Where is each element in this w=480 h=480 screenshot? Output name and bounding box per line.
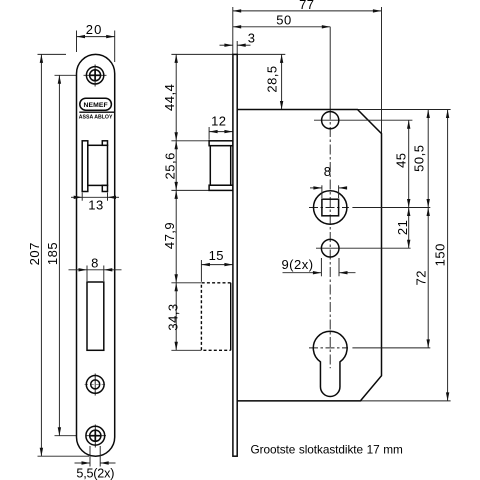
dimension 44,4 xyxy=(162,54,177,140)
dimension 21 xyxy=(395,208,410,249)
dimension 185 extension lines xyxy=(55,75,87,435)
svg-text:50,5: 50,5 xyxy=(411,145,426,172)
dimension 77 xyxy=(233,0,382,134)
dimension 3 xyxy=(220,30,256,54)
dimension 150 xyxy=(433,110,448,401)
svg-text:3: 3 xyxy=(248,30,256,45)
bottom screw hole xyxy=(86,425,106,448)
lock case outline xyxy=(237,110,381,401)
dimension 8 (faceplate slot) xyxy=(69,256,122,281)
dimension 45 xyxy=(394,120,409,207)
dimension 13 xyxy=(71,193,119,213)
dimension 25,6 xyxy=(163,141,210,191)
svg-text:44,4: 44,4 xyxy=(162,84,177,111)
case bottom edge + extension xyxy=(237,400,450,402)
svg-text:21: 21 xyxy=(395,220,410,235)
dimension 28,5 xyxy=(265,54,282,109)
svg-text:185: 185 xyxy=(45,242,60,265)
euro cylinder hole xyxy=(309,331,430,396)
dimension 8 (spindle square) xyxy=(310,164,347,198)
dimension 9(2x) xyxy=(281,257,355,276)
dimension 15 xyxy=(201,248,233,282)
svg-text:72: 72 xyxy=(413,270,428,285)
svg-text:45: 45 xyxy=(394,152,409,167)
extension line faceplate top (44,4 / 28,5) xyxy=(171,53,285,55)
svg-text:77: 77 xyxy=(299,0,314,12)
dimension 50 xyxy=(233,12,331,27)
faceplate edge view strip xyxy=(233,54,237,456)
dimension 207 xyxy=(27,54,42,456)
svg-text:50: 50 xyxy=(276,12,291,27)
deadbolt side view (dashed) xyxy=(201,283,230,351)
dimension 5,5(2x) xyxy=(75,446,116,480)
NEMEF logo xyxy=(79,98,114,120)
svg-text:12: 12 xyxy=(211,113,226,128)
svg-text:9(2x): 9(2x) xyxy=(281,257,313,272)
svg-text:207: 207 xyxy=(27,242,42,265)
dimension 47,9 xyxy=(162,190,177,282)
svg-text:8: 8 xyxy=(91,256,99,271)
svg-text:47,9: 47,9 xyxy=(162,222,177,249)
svg-text:25,6: 25,6 xyxy=(163,152,178,179)
svg-text:5,5(2x): 5,5(2x) xyxy=(76,467,114,480)
svg-text:15: 15 xyxy=(209,248,224,263)
svg-text:20: 20 xyxy=(86,22,103,37)
top screw hole xyxy=(84,65,107,87)
dimension 72 xyxy=(413,208,428,348)
spindle hole with square xyxy=(309,191,430,224)
dimension 20 xyxy=(77,22,115,62)
dimension 12 xyxy=(209,113,233,140)
dimension 34,3 xyxy=(166,283,202,351)
dimension 185 xyxy=(45,75,60,435)
top case hole 9mm xyxy=(314,112,412,129)
latch opening on faceplate xyxy=(82,141,107,192)
faceplate front view xyxy=(77,54,115,456)
dimension 207 extension lines xyxy=(38,54,90,456)
lower case hole 9mm xyxy=(316,239,411,257)
deadbolt slot on faceplate xyxy=(87,282,104,350)
svg-text:ASSA ABLOY: ASSA ABLOY xyxy=(79,114,113,120)
svg-text:NEMEF: NEMEF xyxy=(83,102,107,109)
middle screw hole xyxy=(85,374,107,396)
latch bolt side view xyxy=(209,141,233,191)
svg-text:150: 150 xyxy=(433,243,448,266)
dimension 50,5 xyxy=(411,110,428,208)
case top edge + extension xyxy=(237,109,450,111)
svg-text:13: 13 xyxy=(88,198,103,213)
svg-text:Grootste slotkastdikte 17 mm: Grootste slotkastdikte 17 mm xyxy=(251,443,404,457)
centerline vertical xyxy=(329,27,331,369)
svg-text:8: 8 xyxy=(324,164,332,179)
svg-text:34,3: 34,3 xyxy=(166,303,181,330)
svg-text:28,5: 28,5 xyxy=(265,65,280,92)
